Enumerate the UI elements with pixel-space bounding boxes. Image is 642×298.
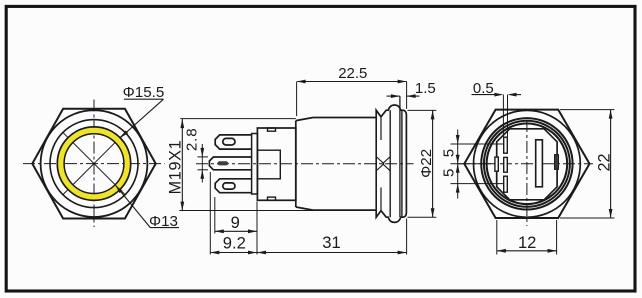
svg-text:9: 9 [231, 213, 240, 232]
svg-text:5: 5 [440, 149, 457, 157]
svg-text:5: 5 [440, 169, 457, 177]
svg-text:22.5: 22.5 [338, 65, 367, 82]
svg-text:31: 31 [322, 233, 340, 252]
svg-text:12: 12 [518, 233, 536, 252]
svg-text:22: 22 [595, 153, 613, 171]
svg-text:Φ15.5: Φ15.5 [123, 84, 165, 101]
svg-text:9.2: 9.2 [223, 233, 246, 252]
svg-text:2.8: 2.8 [183, 128, 200, 152]
svg-text:1.5: 1.5 [415, 80, 436, 97]
